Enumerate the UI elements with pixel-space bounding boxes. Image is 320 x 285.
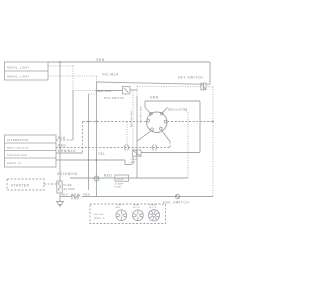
svg-text:B-C-S: B-C-S xyxy=(150,207,157,209)
wire ORN/BLU dashed vertical xyxy=(82,122,84,154)
svg-text:HEADL. LIGHT: HEADL. LIGHT xyxy=(7,66,30,70)
wire key switch right vertical xyxy=(209,62,211,84)
svg-text:Interlock bolt: Interlock bolt xyxy=(7,153,27,157)
wire GRN top xyxy=(48,58,210,62)
wire regulator dotted vertical xyxy=(187,112,189,178)
svg-text:IGN. SWITCH: IGN. SWITCH xyxy=(163,201,189,205)
wire solenoid coil line xyxy=(60,193,71,197)
svg-text:AMP YEL BLK: AMP YEL BLK xyxy=(130,110,133,127)
svg-text:IGN. SW.: IGN. SW. xyxy=(94,214,105,216)
wire solenoid vertical xyxy=(96,82,98,197)
wire YEL/WHT vertical xyxy=(136,86,138,96)
wire RED row corner up xyxy=(169,142,171,148)
svg-text:STARTER: STARTER xyxy=(11,184,30,188)
fuse F1 xyxy=(57,181,75,193)
svg-text:YEL/BLK: YEL/BLK xyxy=(102,73,119,77)
wire dotted short vertical xyxy=(126,122,128,147)
svg-text:20 AMP: 20 AMP xyxy=(115,183,124,186)
svg-text:HEADL. LIGHT: HEADL. LIGHT xyxy=(7,75,30,79)
node B xyxy=(96,90,98,92)
wire RED row dashed long xyxy=(56,144,170,149)
wire starter dashed xyxy=(44,183,57,185)
coil L1 xyxy=(71,194,80,200)
wire fuse to ground xyxy=(59,193,61,202)
wire YEL row xyxy=(56,152,132,165)
wire connector to regulator loop xyxy=(141,152,200,154)
wire dotted vertical to connector xyxy=(132,90,134,151)
connector on RED wire 1 xyxy=(125,145,129,151)
wire to ign switch top-left pin xyxy=(145,101,151,114)
svg-text:PTO SWITCH: PTO SWITCH xyxy=(104,96,124,100)
alternator box ALT1 xyxy=(5,135,57,167)
svg-text:YEL/WHT RED: YEL/WHT RED xyxy=(141,106,143,123)
connector on RED wire 2 xyxy=(153,145,157,151)
bottom connector box xyxy=(90,204,166,224)
wire regulator top xyxy=(145,100,200,102)
switch position OFF xyxy=(116,204,127,220)
node A xyxy=(59,61,61,63)
wire diag bottom-right pin xyxy=(161,130,170,142)
svg-text:GRN: GRN xyxy=(150,96,159,100)
svg-text:ALTERNATOR: ALTERNATOR xyxy=(7,138,28,142)
connector circle J3 xyxy=(163,194,189,204)
svg-text:BLK: BLK xyxy=(58,136,66,140)
svg-text:amplif. to: amplif. to xyxy=(7,161,22,165)
svg-text:RED-WHT: RED-WHT xyxy=(97,89,112,93)
svg-text:KEY SWITCH: KEY SWITCH xyxy=(178,76,203,80)
starter box M1 xyxy=(7,179,44,190)
wire ORN/BLU row xyxy=(56,149,83,153)
wire BLK vertical xyxy=(72,66,74,90)
fuse F2 xyxy=(115,175,129,189)
wire mid vertical stub xyxy=(89,93,97,95)
svg-text:GRN: GRN xyxy=(96,58,105,62)
svg-text:ORN/BLU: ORN/BLU xyxy=(58,149,76,153)
wire mid vertical 1 xyxy=(88,94,90,190)
svg-text:FUSE: FUSE xyxy=(64,183,73,187)
solenoid SOL1 xyxy=(57,172,99,181)
ground xyxy=(57,202,64,207)
svg-text:B-C-D: B-C-D xyxy=(133,207,140,209)
ign switch U1 xyxy=(147,112,167,133)
svg-text:FUSE: FUSE xyxy=(117,179,124,181)
key switch connector J1 xyxy=(178,76,213,90)
wire headlight row1 stub xyxy=(48,65,73,67)
svg-text:AMPS 15A/25D SE: AMPS 15A/25D SE xyxy=(7,147,29,150)
wire dashed switch to right edge xyxy=(168,121,215,123)
svg-text:20 AMP: 20 AMP xyxy=(64,187,76,191)
svg-text:BLK: BLK xyxy=(62,193,68,197)
svg-text:TERM. ID: TERM. ID xyxy=(94,218,105,220)
wire headlight row2 YEL/BLK xyxy=(48,73,119,83)
svg-text:RED: RED xyxy=(104,174,113,178)
svg-text:RED: RED xyxy=(84,193,91,197)
wire dashed mid horizontal to switch xyxy=(83,121,147,123)
wire diag bottom-left pin xyxy=(137,131,152,142)
wire regulator right vertical xyxy=(199,101,201,153)
svg-text:SOLENOID: SOLENOID xyxy=(57,172,78,176)
wire PTO to key switch xyxy=(130,89,137,91)
wire right dotted vertical xyxy=(212,87,214,197)
svg-text:YEL: YEL xyxy=(98,152,106,156)
svg-text:FUSE: FUSE xyxy=(115,187,122,189)
wire BLK row xyxy=(56,136,73,140)
switch position RUN xyxy=(133,204,144,220)
wire left long vertical xyxy=(59,62,61,181)
connector J2 stacked xyxy=(131,150,142,165)
headlight box HL1 xyxy=(5,62,49,80)
wire diag top-right pin xyxy=(163,108,168,113)
wire upper key switch feed xyxy=(97,82,202,84)
wire ign bottom long xyxy=(82,196,213,198)
wire PTO line with label xyxy=(97,89,123,93)
wire PTO line left dotted xyxy=(73,90,97,92)
wire solenoid horizontal xyxy=(70,174,188,179)
svg-text:A-D: A-D xyxy=(116,206,121,209)
PTO switch S1 xyxy=(104,87,130,101)
switch position START xyxy=(148,203,159,221)
svg-text:ORN/: ORN/ xyxy=(131,159,137,161)
